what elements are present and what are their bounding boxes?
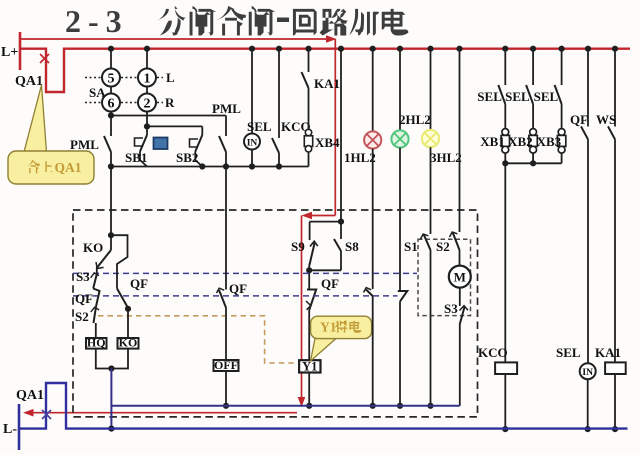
wire XB4 to bus end <box>308 152 310 167</box>
pushbutton SB1 wire top <box>146 126 148 135</box>
svg-text:QF: QF <box>75 291 93 306</box>
svg-text:KA1: KA1 <box>595 345 621 360</box>
wire red flow down S9/Y1 column <box>301 216 303 403</box>
wire horizontal to PML contact <box>111 115 226 117</box>
svg-text:SEL: SEL <box>247 119 272 134</box>
node rail junction 3HL2 <box>427 46 433 52</box>
breaker QA1 closed-mark X (top) <box>40 54 49 63</box>
svg-text:L: L <box>166 70 175 85</box>
coil KA1 <box>605 362 626 374</box>
red flow arrowhead left at L- <box>23 409 34 417</box>
contact S2 blade (left chain) <box>94 307 97 324</box>
svg-text:SEL: SEL <box>477 89 502 104</box>
wire rail down to S8/S9 node <box>340 49 342 222</box>
node OFF bus junction <box>223 403 229 409</box>
wire QF to OFF box <box>225 308 227 360</box>
wire IN lamp to bus <box>251 150 253 167</box>
SA contact 2 <box>138 94 156 112</box>
node rail junction SEL1 <box>502 46 508 52</box>
dashed enclosure box <box>73 210 478 417</box>
fuse XB1 <box>502 129 509 136</box>
wire rail to SA-5 <box>110 49 112 69</box>
pushbutton SB1 wire bottom <box>140 152 147 167</box>
red flow arrowhead right <box>326 35 337 43</box>
svg-text:XB2: XB2 <box>508 134 533 149</box>
SA dotted linkage row2 <box>85 102 101 104</box>
L- supply terminal bar <box>18 404 21 450</box>
node rail junction KCO column <box>276 46 282 52</box>
svg-text:1HL2: 1HL2 <box>344 150 376 165</box>
wire rail to WS contact <box>614 49 616 127</box>
svg-text:XB1: XB1 <box>480 134 505 149</box>
wire to PML right contact <box>225 116 227 137</box>
wire SEL to fuse XB1 <box>504 104 506 130</box>
node 1HL2 bus junction <box>370 403 376 409</box>
node junction under SA-6 <box>108 112 114 118</box>
svg-text:OFF: OFF <box>214 358 238 372</box>
dashed QF interlock line 1 <box>73 272 417 274</box>
contact (2HL2 column) blade NC <box>398 291 408 301</box>
contact QF blade (left chain) <box>93 289 99 307</box>
wire KO to S3 <box>96 267 98 274</box>
contact SEL blade 2 <box>526 85 533 104</box>
wire QF to KO coil <box>127 307 129 338</box>
svg-text:SB1: SB1 <box>125 150 147 165</box>
svg-text:R: R <box>165 95 175 110</box>
wire 2HL2 down to contact <box>399 148 401 291</box>
contact (1HL2 column) blade <box>366 290 373 297</box>
dashed sub-box S1/S2/M <box>418 239 471 315</box>
contact PML (right) blade <box>219 136 226 152</box>
wire QF to Y1 coil <box>308 310 310 360</box>
wire KO-branch horizontal <box>111 235 128 288</box>
wire rail down to S2 contact (M column) <box>459 49 461 232</box>
wire contact to bus (2HL2) <box>399 301 401 405</box>
svg-text:HQ: HQ <box>87 335 106 349</box>
svg-text:S3: S3 <box>76 269 90 284</box>
node rail junction SEL column <box>249 46 255 52</box>
pushbutton SB1 actuator cap <box>135 138 144 146</box>
svg-text:QF: QF <box>570 112 588 127</box>
callout box 合上QA1 <box>8 151 94 184</box>
contact S3 blade (M column) <box>460 307 465 324</box>
wire rail to SEL contact 1 <box>504 49 506 85</box>
wire rail to lamp 1HL2 <box>372 49 374 132</box>
svg-text:QA1: QA1 <box>15 74 43 89</box>
svg-text:L+: L+ <box>1 45 18 60</box>
solenoid coil Y1 <box>299 360 320 372</box>
svg-text:SB2: SB2 <box>176 150 198 165</box>
callout box Y1得电 <box>311 316 372 338</box>
wire rail to KCO contact <box>278 49 280 138</box>
node 2HL2 bus junction <box>397 403 403 409</box>
node rail junction 2HL2 <box>397 46 403 52</box>
coil OFF <box>214 360 239 371</box>
node bottom rail junction left <box>108 426 114 432</box>
pushbutton SB2 actuator cap <box>190 139 199 147</box>
wire S8 to bottom link <box>340 251 342 270</box>
wire bus down to KO node <box>110 167 112 236</box>
indicator IN (top) <box>244 134 260 150</box>
wire SA-2 down to node <box>146 112 148 127</box>
node HQ/KO bottom junction <box>108 365 114 371</box>
node rail junction M column <box>456 46 462 52</box>
pushbutton SB2 wire bottom <box>195 152 202 167</box>
wire OFF box to bus <box>225 371 227 406</box>
wire XB join down to KCO coil <box>504 163 506 362</box>
wire to S9 contact <box>309 222 311 240</box>
node IN bottom rail junction <box>585 426 591 432</box>
title text 分闸合闸 <box>157 6 187 36</box>
node rail junction 1HL2 <box>370 46 376 52</box>
wire QF down to IN lamp (bottom) <box>587 139 589 363</box>
contact SEL blade 3 <box>555 85 562 104</box>
motor M <box>449 266 471 288</box>
SA contact 1 <box>138 69 156 87</box>
wire PML right to bus <box>225 152 227 167</box>
coil KCO <box>495 362 517 374</box>
contact KCO blade <box>272 138 279 153</box>
node SB2 bus junction <box>199 163 205 169</box>
svg-text:M: M <box>454 270 466 285</box>
wire 3HL2 down to S1 <box>430 147 432 234</box>
pushbutton SB1 blade <box>140 135 147 152</box>
wire inner bottom bus (navy) <box>111 405 459 407</box>
title hyphen <box>277 18 289 23</box>
svg-text:3HL2: 3HL2 <box>430 150 462 165</box>
node S1 bus junction <box>427 403 433 409</box>
title text 回路加电 <box>293 9 317 36</box>
wire IN bottom to rail <box>587 379 589 429</box>
callout pointer triangle (Y1得电) <box>311 339 337 362</box>
node junction under SA-2 <box>144 123 150 129</box>
wire KO coil to bottom node <box>111 349 128 369</box>
node S8/S9 bottom junction <box>306 267 312 273</box>
bottom return rail L- (blue) <box>19 383 628 429</box>
wire SA 1-2 <box>146 87 148 94</box>
callout pointer triangle (合上QA1) <box>24 85 47 152</box>
svg-text:S3: S3 <box>444 301 458 316</box>
contact SEL blade 1 <box>498 85 505 104</box>
contact S3 blade (left chain) <box>93 274 97 289</box>
contact KA1 blade <box>302 72 309 88</box>
wire KA1 contact to XB4 <box>308 88 310 130</box>
wire SEL to fuse XB2 <box>532 104 534 130</box>
svg-text:IN: IN <box>247 139 258 149</box>
contact QF (Y1 column) blade NC <box>307 290 316 311</box>
red flow arrowhead left at S9 <box>302 212 313 220</box>
wire WS down to KA1 coil <box>614 139 616 362</box>
breaker QA1 closed-mark X (bottom) <box>42 410 51 419</box>
wire S9 to bottom node <box>308 266 310 270</box>
svg-text:S9: S9 <box>291 239 305 254</box>
svg-text:S2: S2 <box>75 309 89 324</box>
svg-text:6: 6 <box>108 97 115 112</box>
svg-text:2HL2: 2HL2 <box>399 112 431 127</box>
wire rail to lamp 3HL2 <box>430 49 432 130</box>
blue indicator block <box>154 138 168 150</box>
wire rail to SEL contact 3 <box>561 49 563 85</box>
lamp 1HL2 (red) <box>364 131 381 148</box>
wire rail to KA1 contact <box>308 49 310 72</box>
wire HQ to bottom node <box>96 349 112 369</box>
svg-text:Y1: Y1 <box>320 320 337 335</box>
wire red flow vertical down to contact block <box>334 39 336 216</box>
wire SEL to fuse XB3 <box>561 104 563 130</box>
node IN bus junction <box>249 163 255 169</box>
node XB1 join junction <box>502 160 508 166</box>
svg-text:S8: S8 <box>345 239 359 254</box>
wire S8/S9 bottom link <box>309 269 341 271</box>
wire 1HL2 down to contact <box>372 149 374 289</box>
wire to S8 contact <box>340 222 342 239</box>
contact QF blade (right) <box>581 126 588 139</box>
coil HQ <box>86 338 107 349</box>
wire fuse XB3 to join <box>561 153 563 163</box>
fuse XB2 <box>530 129 537 136</box>
svg-text:L-: L- <box>3 422 17 437</box>
wire KO wire segment <box>110 235 112 250</box>
wire node to PML left contact <box>110 116 112 137</box>
top supply rail L+ (red, energized) <box>20 49 630 92</box>
node KCO bus junction <box>276 163 282 169</box>
wire SA 5-6 <box>110 87 112 94</box>
wire XB join line <box>505 162 561 164</box>
node rail junction KA1 column <box>305 46 311 52</box>
svg-text:XB3: XB3 <box>537 134 562 149</box>
svg-text:5: 5 <box>108 72 115 87</box>
contact QF blade (OFF column) <box>219 290 226 308</box>
svg-text:KO: KO <box>119 335 138 349</box>
svg-text:WS: WS <box>596 112 616 127</box>
node Y1 bus junction <box>306 403 312 409</box>
lamp 3HL2 (yellow) <box>422 130 439 147</box>
node rail junction SEL3 <box>559 46 565 52</box>
wire KCO contact to bus <box>278 153 280 167</box>
svg-text:SEL: SEL <box>505 89 530 104</box>
contact S8 blade <box>334 239 341 251</box>
node rail junction SA-5 column <box>108 46 114 52</box>
svg-text:QA1: QA1 <box>16 388 44 403</box>
svg-text:SA: SA <box>89 85 106 100</box>
wire rail to QF contact (right) <box>587 49 589 127</box>
wire rail to SEL contact 2 <box>532 49 534 85</box>
contact QF blade (KO branch) <box>117 289 128 308</box>
contact WS blade <box>608 126 615 139</box>
wire horizontal to SB2 <box>147 125 202 127</box>
wire S3 to bus end <box>459 324 461 406</box>
svg-text:SEL: SEL <box>534 89 559 104</box>
wire PML left contact to bus <box>110 152 112 167</box>
svg-text:PML: PML <box>70 137 99 152</box>
node bus junction left <box>108 163 114 169</box>
lamp 2HL2 (green) <box>391 130 408 147</box>
SA contact 5 <box>102 69 120 87</box>
red flow arrowhead down at Y1 bottom <box>298 397 306 407</box>
pushbutton SB2 wire top <box>201 126 203 135</box>
contact PML (left) blade <box>104 136 111 152</box>
SA dotted linkage row1 <box>85 77 101 79</box>
contact S9 blade <box>309 243 314 266</box>
SA contact 6 <box>102 94 120 112</box>
wire S2 to motor M <box>459 250 461 266</box>
svg-text:S1: S1 <box>404 239 418 254</box>
fuse XB3 <box>558 129 565 136</box>
svg-text:PML: PML <box>212 101 241 116</box>
wire rail to SA-1 <box>146 49 148 69</box>
svg-text:KO: KO <box>83 240 103 255</box>
pushbutton SB2 blade <box>195 135 202 152</box>
coil KO <box>118 338 139 349</box>
wire S9 top link <box>310 221 341 223</box>
node rail junction WS <box>612 46 618 52</box>
wire S2 to HQ coil <box>95 323 97 338</box>
node PML right bus junction <box>223 163 229 169</box>
svg-text:KA1: KA1 <box>314 76 340 91</box>
node KCO bottom rail junction <box>502 426 508 432</box>
svg-text:QF: QF <box>130 276 148 291</box>
wire Y1 coil to bus <box>308 373 310 406</box>
wire KA1 coil to bottom rail <box>614 374 616 429</box>
wire bus down to QF (OFF column) <box>225 167 227 290</box>
wire fuse XB2 to join <box>532 153 534 163</box>
node KA1 bottom rail junction <box>612 426 618 432</box>
svg-text:2: 2 <box>144 97 151 112</box>
wire rail to IN lamp <box>251 49 253 134</box>
wire red flow bottom return line <box>27 412 297 414</box>
node rail junction SA-1 column <box>144 46 150 52</box>
wire bottom node to inner bus (blue) <box>110 369 112 430</box>
wire M to S3 contact <box>459 288 461 306</box>
svg-text:2-3: 2-3 <box>65 3 129 39</box>
svg-text:KCO: KCO <box>478 345 508 360</box>
wire control bus <box>111 166 309 168</box>
wire KCO coil to bottom rail <box>504 374 506 429</box>
svg-text:IN: IN <box>582 368 593 378</box>
contact KO blade <box>98 250 112 267</box>
dashed QF interlock line 2 <box>73 295 398 297</box>
wire red flow arrow left to S9 <box>305 215 335 217</box>
svg-text:QA1: QA1 <box>55 160 82 175</box>
node KO top junction <box>108 232 114 238</box>
dashed S2-Y1 linkage (tan) <box>98 316 296 363</box>
node XB2 join junction <box>530 160 536 166</box>
svg-text:QF: QF <box>229 281 247 296</box>
wire red flow line from L+ across top <box>20 38 332 40</box>
wire S1 to bus <box>430 250 432 406</box>
svg-text:S2: S2 <box>436 239 450 254</box>
node QF/KO junction <box>125 306 131 312</box>
wire contact to bus (1HL2) <box>372 296 374 406</box>
contact S1 blade <box>424 234 431 250</box>
node rail junction S8/S9 column <box>338 46 344 52</box>
wire SA-6 down to node <box>110 112 112 116</box>
svg-text:QF: QF <box>321 276 339 291</box>
svg-text:SEL: SEL <box>556 345 581 360</box>
wire fuse XB1 to join <box>504 153 506 163</box>
L+ supply terminal bar <box>19 32 22 70</box>
indicator IN (bottom) <box>580 363 596 379</box>
wire rail to lamp 2HL2 <box>399 49 401 131</box>
node S8/S9 top junction <box>338 219 344 225</box>
svg-text:XB4: XB4 <box>315 135 340 150</box>
fuse XB4 <box>305 129 311 135</box>
wire node to QF contact <box>308 270 310 289</box>
contact S2 blade (M column) <box>453 232 460 250</box>
svg-text:1: 1 <box>144 72 151 87</box>
node rail junction SEL2 <box>530 46 536 52</box>
node rail junction QF right <box>585 46 591 52</box>
